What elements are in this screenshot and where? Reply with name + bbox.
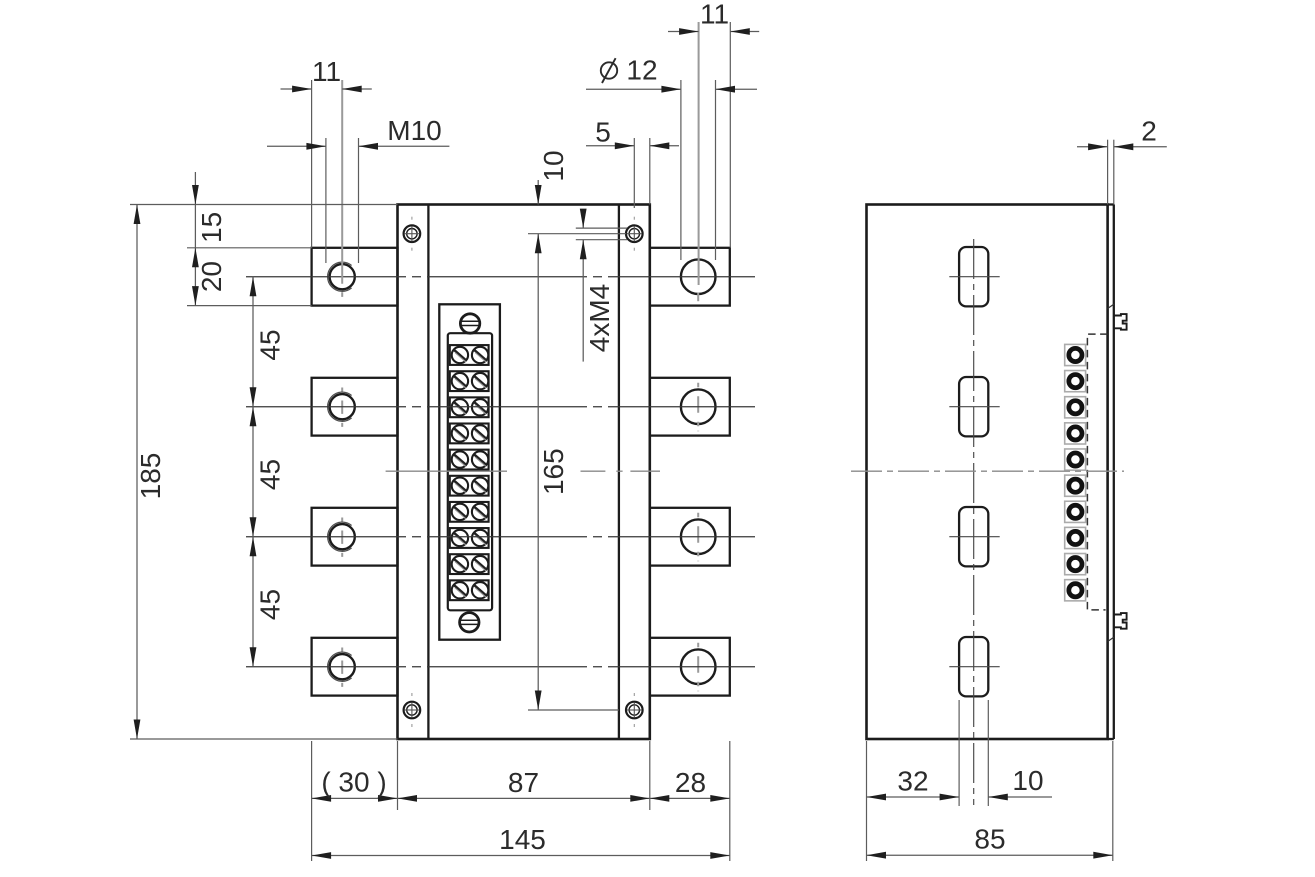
front view left flange line	[427, 205, 429, 740]
dimension 185	[134, 205, 167, 740]
side view slot 4 h-centerline	[949, 666, 999, 668]
svg-text:11: 11	[700, 0, 729, 30]
side view slot 3	[959, 507, 988, 566]
terminal block bottom screw	[460, 613, 479, 632]
ext line screw center top	[633, 138, 635, 208]
ext line M10 center	[341, 80, 343, 284]
ext line tab edge right	[729, 22, 731, 248]
svg-text:2: 2	[1141, 116, 1157, 147]
dimension 10 bottom	[988, 765, 1052, 800]
side view slot 1	[959, 247, 988, 306]
dimension 165	[535, 234, 569, 710]
side view slot 4	[959, 637, 988, 696]
dia 12 hole right tab 1	[681, 259, 716, 301]
front view main centerline	[386, 470, 660, 472]
upper mounting clip	[1114, 314, 1127, 330]
terminal row 9	[450, 554, 489, 574]
side view body outline	[867, 205, 1108, 740]
svg-text:15: 15	[196, 212, 227, 243]
side view main centerline	[851, 470, 1124, 472]
dimension 2	[1077, 116, 1167, 151]
corner screw M4 #2	[626, 217, 643, 251]
corner screw M4 #3	[404, 693, 421, 727]
dia 12 hole right tab 2	[681, 383, 716, 432]
M10 hole left tab 3	[328, 518, 355, 557]
ext line bottom tab right	[729, 741, 731, 861]
ext line body bottom left	[130, 738, 398, 740]
dia 12 hole right tab 4	[681, 643, 716, 692]
plate joint lower	[1108, 637, 1114, 641]
terminal row 3	[450, 397, 489, 417]
svg-text:165: 165	[538, 448, 569, 495]
svg-text:45: 45	[255, 459, 286, 490]
dimension 4xM4	[580, 209, 615, 362]
side view terminal plate edge	[1108, 205, 1114, 740]
terminal row 6	[450, 476, 489, 496]
dimension 145	[312, 824, 730, 859]
dimension 32	[867, 766, 960, 801]
terminal row 5	[450, 450, 489, 470]
ext line M10 right	[358, 138, 360, 263]
front view right tab 4	[650, 638, 730, 696]
ext line slot right	[987, 700, 989, 806]
dimension 45 chain	[250, 277, 286, 667]
svg-text:10: 10	[1012, 765, 1043, 796]
M10 hole left tab 2	[328, 388, 355, 427]
svg-text:45: 45	[255, 589, 286, 620]
ext line plate left	[1107, 140, 1109, 205]
ext line tab edge left	[311, 80, 313, 248]
terminal row 4	[450, 424, 489, 444]
dimension 11 top left	[281, 56, 372, 92]
svg-text:32: 32	[897, 766, 928, 797]
tab row 3 centerline	[246, 536, 755, 538]
plate joint upper	[1108, 304, 1114, 308]
ext line tab1 top	[187, 247, 312, 249]
side view slot 2 h-centerline	[949, 406, 999, 408]
svg-text:12: 12	[626, 55, 657, 86]
svg-text:4xM4: 4xM4	[584, 284, 615, 352]
ext line bottom body right	[649, 741, 651, 810]
dimension 85	[867, 824, 1113, 859]
svg-text:87: 87	[508, 767, 539, 798]
M10 hole left tab 4	[328, 648, 355, 687]
dimension 10 top	[535, 150, 569, 204]
svg-text:45: 45	[255, 329, 286, 360]
front view right tab 3	[650, 508, 730, 566]
ext line M10 left	[325, 138, 327, 263]
side view slot 3 h-centerline	[949, 536, 999, 538]
tab row 1 centerline	[246, 276, 755, 278]
terminal strip body	[448, 333, 492, 610]
terminal block top screw	[460, 314, 479, 333]
dimension 20	[192, 248, 227, 306]
front view left tab 2	[312, 378, 398, 436]
corner screw M4 #4	[626, 693, 643, 727]
side view slot 1 h-centerline	[949, 276, 999, 278]
dimension (30)	[312, 767, 398, 802]
ext line dia12 right	[715, 80, 717, 260]
front view body outline	[398, 205, 650, 740]
side view terminal housings	[1065, 344, 1086, 600]
ext line M4 dia bottom	[576, 239, 627, 241]
dimension 28	[650, 767, 730, 802]
side view terminal screws	[1069, 348, 1082, 596]
ext line M4 dia top	[576, 227, 627, 229]
svg-text:M10: M10	[387, 115, 441, 146]
dimension 87	[398, 767, 650, 802]
dimension 5	[586, 117, 679, 150]
ext line bottom side right	[1112, 741, 1114, 861]
ext line right hole center	[698, 22, 700, 285]
M10 hole left tab 1	[328, 262, 355, 297]
front view right tab 2	[650, 378, 730, 436]
svg-text:28: 28	[675, 767, 706, 798]
svg-text:( 30 ): ( 30 )	[321, 767, 386, 798]
ext line body right top	[649, 138, 651, 205]
tab row 4 centerline	[246, 666, 755, 668]
ext line bottom tab left	[311, 741, 313, 861]
ext line dia12 left	[680, 80, 682, 260]
terminal row 7	[450, 502, 489, 522]
front view left tab 4	[312, 638, 398, 696]
dimension 11 top right	[668, 0, 759, 35]
ext line slot left	[958, 700, 960, 806]
terminal block outline	[439, 304, 500, 639]
terminal row 10	[450, 580, 489, 600]
ext line body top left	[130, 204, 398, 206]
terminal row 1	[450, 345, 489, 365]
dimension dia 12	[586, 55, 757, 93]
front view left tab 3	[312, 508, 398, 566]
corner screw M4 #1	[404, 217, 421, 251]
svg-text:145: 145	[499, 824, 546, 855]
svg-text:185: 185	[135, 453, 166, 500]
dimension 15	[192, 172, 227, 248]
dimension M10	[267, 115, 449, 150]
front view right tab 1	[650, 248, 730, 306]
svg-text:5: 5	[595, 117, 611, 148]
ext line tab1 bottom	[187, 305, 312, 307]
tab row 2 centerline	[246, 406, 755, 408]
svg-text:20: 20	[196, 261, 227, 292]
side view slot 2	[959, 377, 988, 436]
ext line top screws center	[528, 233, 626, 235]
hidden terminal block dashed outline	[1087, 334, 1107, 610]
svg-text:85: 85	[974, 824, 1005, 855]
front view right flange line	[618, 205, 620, 740]
ext line bottom side left	[866, 741, 868, 861]
ext line bottom screws center	[528, 709, 619, 711]
terminal row 2	[450, 371, 489, 391]
terminal row 8	[450, 528, 489, 548]
side view slot v-centerline	[973, 239, 975, 805]
dia 12 hole right tab 3	[681, 513, 716, 562]
ext line bottom body left	[397, 741, 399, 810]
svg-text:10: 10	[538, 150, 569, 181]
front view left tab 1	[312, 248, 398, 306]
svg-text:11: 11	[312, 56, 341, 87]
ext line plate right	[1113, 140, 1115, 205]
lower mounting clip	[1114, 613, 1127, 629]
